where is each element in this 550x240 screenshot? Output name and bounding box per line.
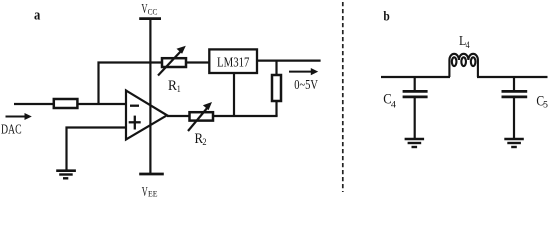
C4 label <box>383 92 396 111</box>
op-amp output wire to R2 <box>167 115 190 117</box>
resistor R1 <box>158 46 186 76</box>
svg-text:CC: CC <box>148 6 158 16</box>
resistor (input series) <box>54 99 78 108</box>
svg-text:DAC: DAC <box>1 121 22 136</box>
C5 label <box>536 93 548 110</box>
svg-text:V: V <box>142 184 148 199</box>
svg-text:a: a <box>34 8 41 24</box>
wire input resistor to inverting input <box>77 103 126 105</box>
bottom wire R2 to load resistor <box>213 115 278 117</box>
output arrow <box>289 68 318 75</box>
capacitor C5 <box>502 77 528 138</box>
svg-text:EE: EE <box>148 189 158 199</box>
svg-text:5: 5 <box>543 101 548 111</box>
feedback wire from inverting node <box>99 63 163 105</box>
svg-text:1: 1 <box>177 85 181 95</box>
output wire <box>257 59 321 61</box>
svg-text:LM317: LM317 <box>217 56 249 71</box>
svg-text:4: 4 <box>466 41 470 51</box>
wire non-inverting input <box>67 128 127 171</box>
ground under C4 <box>405 139 425 147</box>
op-amp minus sign <box>130 105 139 107</box>
load resistor vertical <box>272 61 281 116</box>
svg-text:0~5V: 0~5V <box>294 78 318 93</box>
Vcc label <box>141 1 157 16</box>
regulator LM317 <box>209 49 257 73</box>
op-amp U1 <box>126 91 167 140</box>
wire R1 to LM317 <box>186 61 210 63</box>
op-amp plus sign <box>129 116 141 130</box>
R1 label <box>168 78 181 95</box>
capacitor C4 <box>403 77 428 138</box>
power rail wire Vcc to Vee <box>149 20 151 175</box>
wire b left <box>381 76 450 78</box>
resistor R2 <box>188 102 213 131</box>
ground under C5 <box>504 139 524 147</box>
inductor L4 <box>449 54 478 77</box>
svg-text:2: 2 <box>202 138 207 148</box>
svg-text:4: 4 <box>391 101 396 111</box>
wire b right <box>477 76 548 78</box>
R2 label <box>195 131 207 148</box>
dashed divider <box>342 2 344 192</box>
Vee label <box>142 184 158 199</box>
adjust pin wire <box>233 73 235 116</box>
wire DAC input left segment <box>14 103 55 105</box>
ground <box>56 171 76 179</box>
Vcc supply bar <box>139 17 161 20</box>
svg-text:b: b <box>383 10 390 25</box>
Vee supply bar <box>139 173 164 176</box>
L4 label <box>459 33 470 51</box>
DAC arrow <box>6 113 32 120</box>
